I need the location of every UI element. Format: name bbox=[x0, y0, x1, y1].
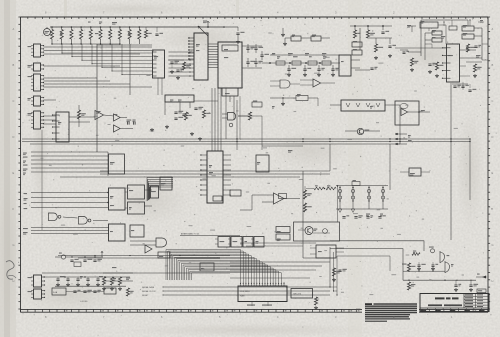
svg-text:SERIAL CLOCK: SERIAL CLOCK bbox=[142, 290, 156, 293]
svg-text:A: A bbox=[13, 27, 15, 31]
svg-text:G: G bbox=[492, 243, 494, 247]
svg-text:D: D bbox=[13, 135, 15, 139]
svg-text:74HC373: 74HC373 bbox=[293, 294, 302, 296]
svg-text:E: E bbox=[13, 171, 15, 175]
svg-text:H: H bbox=[492, 279, 494, 283]
svg-text:RAM: RAM bbox=[240, 295, 245, 298]
svg-text:B: B bbox=[13, 63, 15, 67]
svg-text:B: B bbox=[492, 63, 494, 67]
svg-text:5.0A: 5.0A bbox=[53, 291, 58, 294]
svg-text:L.08 080: L.08 080 bbox=[80, 301, 87, 303]
svg-text:E: E bbox=[492, 171, 494, 175]
svg-text:D: D bbox=[492, 135, 494, 139]
svg-text:RESET: RESET bbox=[142, 295, 149, 297]
svg-text:G: G bbox=[13, 243, 15, 247]
svg-text:H: H bbox=[13, 279, 15, 283]
svg-text:A: A bbox=[492, 27, 494, 31]
svg-text:C: C bbox=[13, 99, 15, 103]
svg-text:SERIAL DATA: SERIAL DATA bbox=[142, 286, 155, 289]
svg-text:CXK 5816: CXK 5816 bbox=[240, 291, 250, 293]
svg-text:C: C bbox=[492, 99, 494, 103]
svg-text:AMBER BAND TO 45: AMBER BAND TO 45 bbox=[181, 233, 199, 236]
